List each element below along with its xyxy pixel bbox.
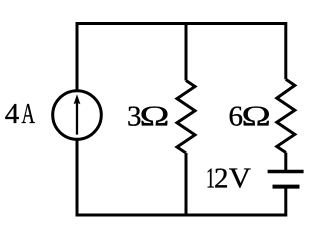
svg-text:V: V [229, 162, 252, 194]
wire middle lower [185, 153, 188, 217]
label 6ohm [229, 100, 271, 132]
svg-text:A: A [22, 98, 36, 130]
wire battery to bottom [284, 189, 287, 217]
svg-text:2: 2 [214, 163, 229, 195]
wire bottom [77, 214, 286, 217]
wire left upper [76, 22, 79, 91]
wire middle upper [185, 22, 188, 81]
svg-text:Ω: Ω [242, 100, 271, 132]
wire resistor to battery [284, 153, 287, 171]
resistor R1 3ohm [177, 81, 195, 154]
battery V1 plate short [273, 185, 300, 189]
battery V1 plate long [268, 170, 304, 174]
wire top [77, 22, 286, 25]
svg-text:Ω: Ω [140, 100, 170, 132]
wire left lower [76, 139, 79, 216]
resistor R2 6ohm [277, 79, 295, 152]
label 3ohm [127, 100, 169, 133]
label 12V [206, 162, 251, 194]
wire right upper [284, 22, 287, 79]
svg-text:4: 4 [5, 98, 20, 130]
current source I1 [53, 91, 102, 140]
label 4A [5, 98, 35, 130]
